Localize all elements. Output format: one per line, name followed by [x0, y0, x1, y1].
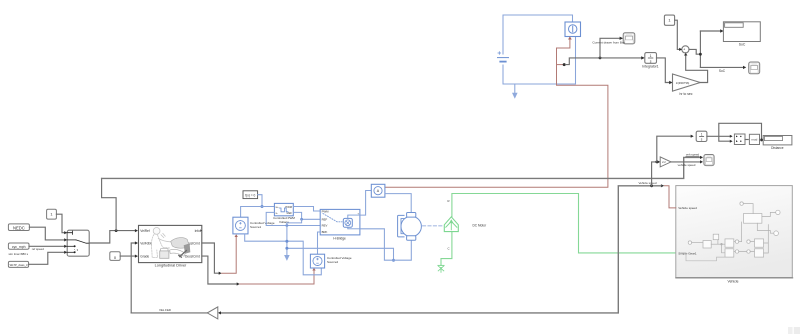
constant 1 (cycle select)	[47, 209, 57, 219]
source WLTP_class_3	[8, 261, 28, 267]
svg-text:SoC: SoC	[719, 69, 726, 73]
current sensor (motor)	[371, 184, 385, 197]
ground electrical reference (pwm)	[284, 255, 290, 261]
wire motor - to rail	[360, 229, 411, 260]
svg-text:Simple Gear1: Simple Gear1	[678, 252, 697, 256]
svg-text:1: 1	[701, 132, 703, 136]
svg-text:REF: REF	[322, 217, 328, 221]
svg-text:Current drawn from Bat: Current drawn from Bat	[592, 40, 624, 44]
wire Integrator2 to minmax	[707, 135, 731, 137]
integrator Integrator1	[645, 53, 657, 64]
wire NEDC to switch port1	[29, 227, 66, 240]
svg-text:PWM: PWM	[322, 209, 330, 213]
wire PWM out to H-bridge PWM	[293, 207, 320, 212]
controlled voltage source CVS1	[233, 217, 248, 234]
wire gain to sum bottom	[686, 54, 708, 82]
svg-text:Source2: Source2	[327, 260, 339, 264]
wire CVS1 plus to PWM u+	[241, 207, 275, 218]
wire u- to REV rail	[266, 212, 320, 225]
svg-text:1/(3600*36): 1/(3600*36)	[676, 81, 690, 85]
wire constant to switch control	[56, 214, 66, 233]
svg-text:hr to sec: hr to sec	[679, 92, 692, 96]
wire solver to node	[258, 195, 262, 207]
node vertical	[699, 31, 701, 67]
wire AccelCmd	[202, 243, 219, 273]
multiport switch	[67, 230, 89, 256]
svg-text:VelRef: VelRef	[140, 229, 150, 233]
svg-text:H-Bridge: H-Bridge	[333, 237, 346, 241]
svg-text:Longitudinal Driver: Longitudinal Driver	[155, 264, 187, 268]
wire minmax to mod	[745, 139, 748, 141]
wire red PS measurement net (battery sensor to motor sensor)	[385, 38, 608, 188]
controlled PWM voltage block	[274, 203, 293, 215]
display Distance	[763, 136, 792, 145]
gain hr to sec	[673, 74, 701, 91]
svg-text:VelFdbk: VelFdbk	[140, 241, 152, 245]
junction node to integrator2	[655, 161, 658, 164]
wire 0 to Grade	[120, 255, 137, 257]
wire mod to display	[760, 139, 763, 141]
feedback gain (unity)	[207, 307, 218, 319]
svg-text:ref speed: ref speed	[32, 247, 44, 251]
svg-text:Integrator1: Integrator1	[642, 64, 659, 68]
wire vehicle speed out (red)	[665, 186, 676, 208]
wire sensor to motor +	[385, 194, 411, 213]
controlled voltage source CVS2	[310, 254, 324, 268]
svg-text:vehicle speed: vehicle speed	[678, 163, 696, 167]
junction node ref speed branch	[115, 229, 118, 232]
scope SoC	[749, 62, 760, 74]
wire constant 1 to sum	[675, 20, 681, 49]
svg-text:REV: REV	[322, 224, 328, 228]
svg-text:Info: Info	[195, 229, 201, 233]
ground electrical reference (battery)	[512, 84, 518, 99]
svg-text:SoC: SoC	[739, 42, 746, 46]
wire cyc_mph to switch port2	[29, 245, 66, 247]
svg-text:DC Motor: DC Motor	[473, 224, 488, 228]
wire CVS1 minus rail	[245, 234, 322, 275]
wire to scope Current drawn	[600, 38, 622, 58]
wire gain out to left	[131, 312, 207, 314]
wire green R to vehicle	[452, 194, 675, 253]
constant 1	[664, 15, 674, 25]
wire sum to node	[689, 49, 700, 54]
wire WLTP to switch port3	[29, 252, 66, 264]
source NEDC	[8, 224, 29, 231]
wire battery loop top	[503, 15, 573, 54]
svg-text:sim time=880 s: sim time=880 s	[9, 252, 29, 256]
junction REV/ground	[286, 224, 289, 227]
svg-text:DecelCmd: DecelCmd	[185, 254, 200, 258]
junction arrow	[661, 184, 664, 187]
junction node to speed instruments	[650, 184, 653, 187]
driver art	[151, 228, 170, 258]
svg-text:mod: mod	[751, 138, 757, 142]
svg-text:veh speed: veh speed	[686, 152, 700, 156]
svg-text:Distance: Distance	[771, 146, 784, 150]
svg-text:u-: u-	[276, 212, 278, 215]
svg-text:BRK: BRK	[322, 230, 328, 234]
mod block	[749, 134, 759, 144]
wire green C to ground	[441, 232, 452, 265]
svg-text:Vehicle speed: Vehicle speed	[639, 181, 657, 185]
wire to Integrator2	[657, 136, 692, 162]
junction dot	[563, 63, 566, 66]
svg-text:C: C	[448, 247, 450, 251]
wire shaft dashed	[423, 225, 444, 227]
svg-text:NEDC: NEDC	[13, 225, 25, 230]
battery B1	[498, 52, 509, 62]
pedal mark	[179, 251, 187, 258]
svg-text:Grade: Grade	[140, 254, 149, 258]
wire node to display SoC	[700, 30, 722, 32]
rotational electromechanical converter (green)	[444, 217, 458, 232]
display SoC	[723, 22, 760, 42]
constant 0 (grade)	[110, 252, 120, 261]
subsystem Longitudinal Driver	[139, 225, 202, 262]
wire ground rail vertical	[286, 223, 288, 255]
svg-text:2.2: 2.2	[662, 160, 666, 164]
wire REF out to H-bridge REF	[293, 212, 320, 219]
svg-text:Vehicle: Vehicle	[728, 280, 739, 284]
svg-text:s: s	[650, 59, 652, 63]
scope vehicle speed	[704, 155, 714, 166]
seat box	[160, 251, 169, 258]
wire vehicle speed bus	[220, 186, 661, 313]
wire battery loop bottom	[503, 37, 576, 84]
wire reference bus across	[102, 157, 702, 178]
scope Current drawn from battery	[623, 33, 635, 44]
gain mps to mph	[660, 157, 671, 167]
svg-text:Source1: Source1	[250, 225, 262, 229]
current sensor (battery)	[565, 22, 581, 37]
wire BRK to CVS2	[318, 232, 321, 254]
wire Integrator1 to gain	[657, 58, 672, 83]
wire ground to motor-minus rail	[287, 248, 394, 260]
wire node to scope SoC	[700, 66, 744, 68]
subsystem Vehicle	[676, 186, 793, 278]
svg-text:-: -	[685, 50, 686, 54]
svg-text:cyc_mph: cyc_mph	[12, 245, 26, 249]
wire red stub to converter junction	[557, 64, 563, 66]
wire branch up to reference bus	[102, 178, 117, 230]
wire H-bridge + to current sensor	[360, 191, 371, 216]
minmax block	[734, 134, 745, 145]
wire gain to scope	[671, 161, 702, 163]
H-Bridge block	[320, 209, 360, 235]
wire DecelCmd	[202, 256, 237, 284]
accel swoosh	[171, 238, 190, 249]
svg-text:*, 3: *, 3	[74, 248, 79, 252]
wire to Integrator1	[566, 58, 644, 65]
wire up to gain mph	[652, 162, 659, 186]
svg-text:VEL FED: VEL FED	[159, 308, 171, 312]
solver configuration f(x)=0	[243, 191, 258, 199]
wire switch output to VelRef	[89, 231, 137, 243]
svg-text:f(x) = 0: f(x) = 0	[245, 193, 255, 197]
junction node to scope	[599, 57, 602, 60]
svg-text:1: 1	[650, 54, 652, 58]
wire mod feedback loop	[719, 123, 762, 141]
wire REF ground branch	[287, 219, 302, 223]
DC motor electrical part	[398, 213, 422, 241]
dark arrow	[184, 243, 191, 253]
watermark corner	[788, 327, 793, 334]
mechanical rotational reference	[438, 265, 444, 272]
vehicle inner diagram	[681, 202, 781, 261]
source cyc_mph	[8, 243, 29, 249]
integrator Integrator2	[696, 131, 707, 141]
wire feedback to VelFdbk	[131, 243, 137, 313]
svg-text:Vehicle speed: Vehicle speed	[678, 206, 697, 210]
sum block	[682, 46, 689, 54]
svg-text:u+: u+	[276, 206, 279, 209]
svg-text:WLTP_class_3: WLTP_class_3	[10, 263, 28, 267]
svg-text:R: R	[448, 199, 450, 203]
